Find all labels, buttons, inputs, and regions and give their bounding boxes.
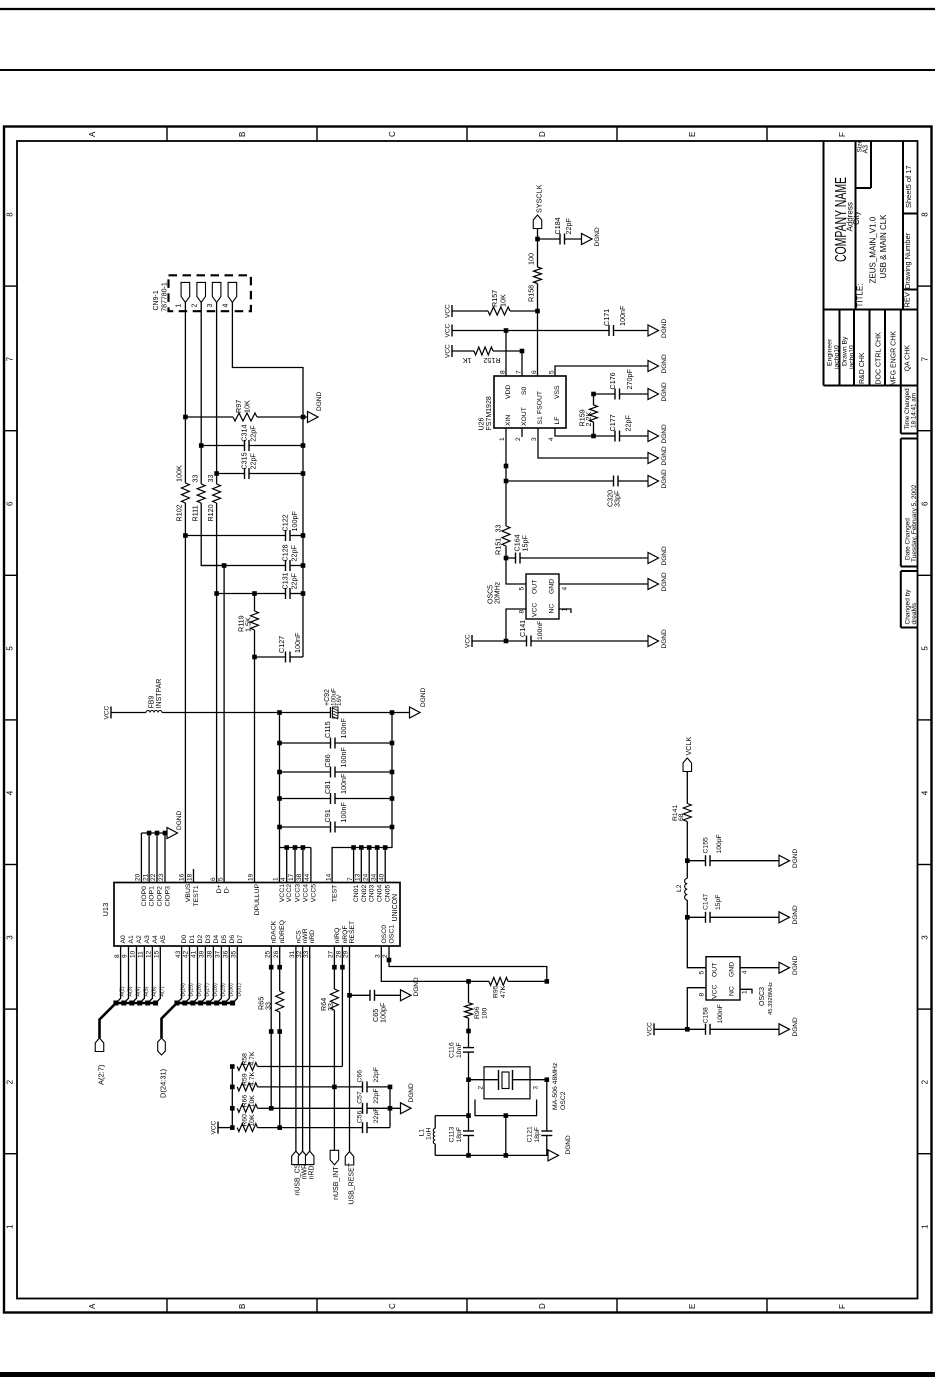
capacitor C57 — [271, 1088, 400, 1114]
crystal OSC2 MA-506 48MHz — [469, 1062, 568, 1155]
net labels A(2)-A(7) — [120, 986, 166, 996]
wire VCC pins bus — [280, 848, 311, 884]
ground DGND (C176) — [648, 382, 668, 401]
wire VCC rail vertical — [280, 713, 311, 848]
svg-text:A3: A3 — [144, 935, 151, 944]
svg-text:D7: D7 — [237, 935, 244, 944]
svg-text:D4: D4 — [213, 935, 220, 944]
top page rule — [0, 8, 935, 10]
svg-text:D(28): D(28) — [212, 983, 218, 996]
svg-text:1: 1 — [273, 877, 280, 881]
junction dots CIOP bus — [147, 831, 168, 836]
power VCC (R157) — [445, 304, 489, 318]
capacitor C155 — [687, 834, 779, 866]
svg-text:22pF: 22pF — [373, 1067, 380, 1083]
junction dots nDACK net — [269, 965, 274, 1111]
resistor R65 — [257, 991, 284, 1012]
svg-text:DGND: DGND — [565, 1135, 572, 1154]
svg-text:A(5): A(5) — [143, 986, 149, 996]
svg-text:REV: REV — [903, 292, 912, 307]
svg-text:CN03: CN03 — [369, 885, 376, 903]
wire U26 LF pin4 to C177 node — [555, 428, 594, 436]
svg-text:C122: C122 — [281, 514, 290, 531]
svg-text:Engineer: Engineer — [827, 338, 834, 366]
svg-text:C127: C127 — [277, 636, 286, 653]
svg-text:C131: C131 — [281, 572, 290, 589]
svg-text:VCC5: VCC5 — [310, 884, 317, 902]
power VCC (C171 row) — [445, 323, 453, 337]
svg-text:15pF: 15pF — [715, 895, 722, 911]
svg-text:OSC2: OSC2 — [560, 1091, 567, 1110]
svg-text:C: C — [388, 1303, 397, 1309]
resistor R152 — [462, 347, 522, 365]
wire U13 TEST1 pin18 stub — [193, 869, 195, 883]
svg-text:5: 5 — [519, 587, 526, 591]
junction dot D- branch — [222, 563, 227, 568]
title block size cell text — [857, 139, 870, 153]
wire CN9 pin4 to ground rail — [232, 302, 303, 657]
svg-text:C91: C91 — [323, 809, 332, 822]
svg-text:5: 5 — [699, 971, 706, 975]
wire pull-up bank ground rail — [389, 1087, 391, 1128]
svg-text:3: 3 — [6, 935, 15, 940]
svg-text:3: 3 — [533, 1086, 540, 1090]
junction dots ground rail — [301, 415, 306, 596]
ground DGND (S1) — [648, 446, 668, 465]
power VCC (C158 row) — [647, 1022, 688, 1036]
junction dots C81 row — [277, 796, 394, 801]
svg-text:8: 8 — [519, 610, 526, 614]
svg-text:nRQF: nRQF — [342, 925, 349, 943]
svg-text:270pF: 270pF — [625, 369, 634, 390]
svg-text:GND: GND — [549, 579, 556, 594]
svg-text:D(30): D(30) — [228, 983, 234, 996]
svg-text:VCC: VCC — [445, 344, 452, 358]
capacitor C121 — [527, 1126, 553, 1155]
svg-text:VCLK: VCLK — [684, 737, 693, 756]
output flag nUSB_INT — [330, 1150, 340, 1200]
svg-text:34: 34 — [370, 873, 377, 881]
junction dots LF node — [591, 392, 596, 439]
svg-text:16: 16 — [179, 873, 186, 881]
svg-text:C86: C86 — [323, 754, 332, 767]
svg-text:DGND: DGND — [661, 446, 668, 465]
bus flag A(2:7) — [95, 1038, 105, 1085]
svg-text:OSC3: OSC3 — [759, 987, 766, 1006]
svg-text:17: 17 — [288, 873, 295, 881]
wire SYSCLK net — [537, 229, 539, 377]
svg-text:D5: D5 — [221, 935, 228, 944]
wire U26 S1 pin3 to ground — [538, 428, 648, 458]
title block borders — [824, 142, 918, 628]
power VCC (C141 row) — [465, 634, 507, 648]
input flag nWR — [298, 1151, 308, 1179]
svg-text:2: 2 — [478, 1086, 485, 1090]
resistor R158 — [527, 253, 542, 302]
svg-text:R96: R96 — [474, 1006, 481, 1019]
svg-text:nUSB_INT: nUSB_INT — [333, 1166, 340, 1200]
wire VCLK net — [686, 772, 688, 879]
wire XIN net (U26 pin1 to OSC5 OUT) — [506, 428, 526, 584]
svg-text:SYSCLK: SYSCLK — [535, 184, 544, 213]
svg-text:1: 1 — [176, 304, 183, 308]
svg-text:CIOP1: CIOP1 — [149, 886, 156, 907]
svg-text:A(7): A(7) — [159, 986, 165, 996]
wire OSC3 NC pin1 stub — [740, 989, 752, 993]
svg-text:C57: C57 — [357, 1091, 364, 1104]
svg-text:Tuesday, February 5, 2002: Tuesday, February 5, 2002 — [911, 484, 918, 562]
svg-text:13: 13 — [355, 873, 362, 881]
svg-text:10K: 10K — [249, 1114, 256, 1127]
wire RESET net — [349, 946, 351, 1152]
wire C92 to ground rail and DGND — [338, 712, 410, 714]
svg-text:nDACK: nDACK — [271, 920, 278, 943]
svg-text:45.3928MHz: 45.3928MHz — [768, 982, 774, 1015]
svg-text:R&D CHK: R&D CHK — [859, 352, 866, 384]
svg-text:22pF: 22pF — [289, 545, 298, 562]
svg-text:D-: D- — [224, 886, 231, 893]
wire GND rail vertical — [332, 713, 392, 884]
svg-text:33: 33 — [326, 1003, 335, 1011]
svg-text:A(3): A(3) — [128, 986, 134, 996]
svg-text:100K: 100K — [175, 465, 184, 482]
svg-text:3: 3 — [375, 954, 382, 958]
ground DGND (C65) — [401, 977, 421, 1001]
svg-text:100nF: 100nF — [339, 718, 348, 739]
svg-text:CIOP3: CIOP3 — [165, 886, 172, 907]
svg-text:24: 24 — [362, 873, 369, 881]
svg-text:CN9-1: CN9-1 — [153, 290, 160, 310]
svg-text:18pF: 18pF — [534, 1127, 541, 1143]
svg-text:22pF: 22pF — [624, 415, 633, 432]
svg-text:DGND: DGND — [316, 392, 323, 411]
svg-text:D(27): D(27) — [204, 983, 210, 996]
svg-text:VCC: VCC — [532, 603, 539, 617]
svg-text:1: 1 — [6, 1224, 15, 1229]
junction dots C86 row — [277, 770, 394, 775]
zone letters top — [88, 131, 847, 137]
svg-text:16V: 16V — [336, 694, 343, 706]
svg-text:R120: R120 — [206, 504, 215, 521]
svg-text:DGND: DGND — [661, 469, 668, 488]
junction dot nRQF net — [340, 965, 345, 970]
svg-text:R60: R60 — [241, 1114, 248, 1127]
svg-text:GND: GND — [729, 962, 736, 977]
ground DGND (VSS) — [648, 354, 668, 373]
svg-text:D: D — [538, 1303, 547, 1309]
svg-text:4: 4 — [548, 437, 555, 441]
capacitor C122 — [185, 511, 303, 541]
junction dot S0 — [520, 349, 525, 354]
svg-text:15pF: 15pF — [521, 535, 530, 552]
resistor R59 — [237, 1071, 334, 1090]
svg-text:D3: D3 — [205, 935, 212, 944]
svg-text:OSC1: OSC1 — [389, 925, 396, 944]
svg-text:39: 39 — [199, 950, 206, 958]
title block title text — [856, 214, 889, 308]
svg-text:VSS: VSS — [554, 385, 561, 399]
svg-text:TEST1: TEST1 — [193, 885, 200, 906]
svg-text:68: 68 — [678, 813, 685, 821]
svg-text:36: 36 — [223, 950, 230, 958]
capacitor C127 — [255, 632, 304, 662]
svg-text:2: 2 — [515, 437, 522, 441]
svg-text:DGND: DGND — [661, 319, 668, 338]
svg-text:2: 2 — [921, 1079, 930, 1084]
capacitor C128 — [201, 544, 303, 571]
svg-text:33: 33 — [303, 950, 310, 958]
svg-text:RESET: RESET — [349, 921, 356, 944]
svg-text:nWR: nWR — [302, 928, 309, 943]
svg-text:CN01: CN01 — [353, 885, 360, 903]
junction dot OSC1 net — [387, 958, 392, 963]
svg-text:R151: R151 — [494, 538, 503, 555]
zone numbers right — [921, 212, 930, 1229]
wire VCC row to C171 — [452, 330, 609, 332]
svg-text:3: 3 — [921, 935, 930, 940]
resistor R102 — [175, 465, 190, 521]
svg-text:nRD: nRD — [309, 1165, 316, 1179]
capacitor C177 — [594, 414, 649, 441]
svg-text:FSOUT: FSOUT — [537, 391, 544, 414]
svg-text:20: 20 — [135, 873, 142, 881]
junction dots A bus — [113, 1001, 158, 1006]
junction dot C155 tap — [685, 858, 690, 863]
svg-text:22pF: 22pF — [373, 1108, 380, 1124]
svg-text:C116: C116 — [449, 1042, 456, 1058]
svg-text:7: 7 — [921, 356, 930, 361]
svg-text:VCC3: VCC3 — [295, 884, 302, 902]
resistor R119 — [237, 594, 259, 658]
svg-text:11: 11 — [138, 951, 145, 958]
svg-text:100nF: 100nF — [339, 747, 348, 768]
svg-text:28: 28 — [336, 950, 343, 958]
junction dots R95 row — [466, 979, 549, 984]
ic U13 UNICON — [101, 873, 400, 958]
ground DGND (CIOP bank) — [167, 811, 183, 839]
svg-text:4: 4 — [223, 304, 230, 308]
svg-text:33pF: 33pF — [613, 490, 622, 507]
title block engineer cell text — [827, 338, 841, 370]
power VCC (FB9) — [104, 705, 112, 719]
capacitor C92 100uF electrolytic — [324, 688, 343, 719]
svg-text:14: 14 — [325, 873, 332, 881]
svg-text:Drawing Number: Drawing Number — [903, 232, 912, 289]
svg-text:6: 6 — [6, 501, 15, 506]
svg-text:jacho10: jacho10 — [849, 345, 856, 370]
svg-text:DGND: DGND — [792, 905, 799, 924]
svg-text:DGND: DGND — [792, 956, 799, 975]
svg-text:E: E — [688, 132, 697, 137]
svg-text:nDREQ: nDREQ — [279, 920, 286, 943]
svg-text:A4: A4 — [152, 935, 159, 944]
svg-text:C141: C141 — [518, 620, 527, 637]
svg-text:2.2K: 2.2K — [584, 412, 593, 427]
svg-text:S1: S1 — [537, 416, 544, 425]
junction dot C147 tap — [685, 915, 690, 920]
wire OSC5 GND pin4 to ground — [559, 583, 648, 585]
net labels D(24)-D(31) — [181, 983, 243, 996]
junction dots XIN net — [504, 464, 509, 561]
junction dots D bus — [174, 1001, 235, 1006]
svg-text:41: 41 — [191, 950, 198, 958]
svg-text:NC: NC — [549, 604, 556, 614]
svg-text:D(29): D(29) — [220, 983, 226, 996]
junction dot RESET at C65 — [347, 993, 352, 998]
ground DGND (R97) — [303, 392, 323, 423]
svg-text:8: 8 — [921, 212, 930, 217]
svg-text:L2: L2 — [676, 884, 683, 892]
wire A bus lines — [100, 946, 161, 1038]
ground DGND (decoupling bank) — [410, 688, 428, 718]
svg-text:VCC: VCC — [445, 304, 452, 318]
svg-text:4: 4 — [742, 970, 749, 974]
svg-text:OUT: OUT — [712, 963, 719, 977]
svg-text:F: F — [838, 132, 847, 137]
svg-text:FB9: FB9 — [149, 696, 156, 709]
wire CIOP pins to ground bus — [141, 833, 167, 883]
svg-text:4: 4 — [6, 790, 15, 795]
resistor R120 — [206, 475, 221, 522]
svg-text:VCC: VCC — [211, 1120, 218, 1134]
capacitor C171 — [602, 305, 648, 336]
svg-text:18:14:41 am: 18:14:41 am — [911, 393, 918, 428]
svg-text:C177: C177 — [608, 414, 617, 431]
svg-text:VCC: VCC — [465, 634, 472, 648]
svg-text:City: City — [852, 211, 861, 225]
bus flag D(24:31) — [158, 1038, 168, 1098]
svg-text:CN04: CN04 — [377, 885, 384, 903]
svg-text:R95: R95 — [493, 985, 500, 998]
svg-text:D(24:31): D(24:31) — [159, 1068, 168, 1098]
ground DGND (OSC5) — [648, 572, 668, 591]
svg-text:35: 35 — [231, 950, 238, 958]
svg-text:C155: C155 — [703, 837, 710, 853]
svg-text:nRD: nRD — [309, 930, 316, 944]
wire nIRQ net — [333, 946, 335, 1150]
ground DGND (C158) — [779, 1017, 799, 1036]
svg-text:100: 100 — [482, 1007, 489, 1019]
svg-text:1: 1 — [499, 437, 506, 441]
wire nRQF net — [341, 946, 343, 1067]
svg-text:2: 2 — [191, 304, 198, 308]
svg-text:jacho10: jacho10 — [834, 345, 841, 370]
capacitor C65 — [350, 990, 401, 1023]
svg-text:26: 26 — [273, 950, 280, 958]
svg-text:DGND: DGND — [594, 227, 601, 246]
svg-text:DGND: DGND — [661, 354, 668, 373]
wire U26 S0 pin7 stub — [521, 351, 523, 376]
junction dots C91 row — [277, 825, 394, 830]
svg-text:B: B — [238, 132, 247, 137]
wire L2 to OSC3 — [687, 900, 706, 968]
svg-text:10: 10 — [130, 950, 137, 958]
resistor R64 — [319, 989, 338, 1011]
junction dots pull-up left rail — [230, 1064, 235, 1130]
ferrite bead FB9 INSTPAR — [111, 679, 163, 713]
svg-text:U26: U26 — [479, 418, 486, 431]
junction dots VCC/GND rails at C92 row — [277, 710, 394, 715]
junction dot crystal right pin — [545, 1077, 550, 1082]
svg-text:10nF: 10nF — [456, 1043, 463, 1059]
svg-text:5: 5 — [217, 877, 224, 881]
junction dot D- at C314 — [199, 443, 204, 448]
junction dots VCC bus — [284, 845, 305, 850]
svg-text:18pF: 18pF — [456, 1127, 463, 1143]
svg-text:33: 33 — [206, 475, 215, 483]
capacitor C56 — [280, 1108, 390, 1134]
resistor R111 — [191, 475, 206, 522]
svg-text:7: 7 — [347, 877, 354, 881]
ground DGND (C184) — [582, 227, 602, 246]
svg-text:TEST: TEST — [332, 885, 339, 902]
input flag nUSB_CS — [292, 1151, 302, 1196]
capacitor C147 — [687, 894, 779, 923]
wire OSC3 VCC pin8 to rail — [687, 988, 706, 1030]
resistor R58 — [237, 1051, 342, 1070]
svg-text:3: 3 — [207, 304, 214, 308]
svg-text:VCC: VCC — [712, 985, 719, 999]
svg-text:R111: R111 — [191, 505, 200, 521]
svg-text:100nF: 100nF — [293, 632, 302, 653]
svg-text:F: F — [838, 1304, 847, 1309]
oscillator OSC5 20MHz — [488, 574, 569, 619]
svg-text:VCC: VCC — [445, 323, 452, 337]
svg-text:U13: U13 — [101, 903, 110, 917]
svg-text:DGND: DGND — [661, 629, 668, 648]
svg-text:22pF: 22pF — [289, 573, 298, 590]
wire nRD net — [309, 946, 311, 1151]
resistor R96 — [465, 981, 489, 1019]
svg-text:100pF: 100pF — [290, 511, 299, 532]
svg-text:nWR: nWR — [301, 1164, 308, 1180]
second page rule — [0, 69, 935, 71]
svg-text:6: 6 — [210, 877, 217, 881]
svg-text:DGND: DGND — [661, 546, 668, 565]
svg-text:18: 18 — [187, 873, 194, 881]
wire U26 VDD pin8 stub — [505, 331, 507, 377]
junction dots D+ net — [214, 471, 219, 596]
svg-text:XIN: XIN — [505, 415, 512, 426]
wire pull-up bank left rail — [231, 1067, 233, 1128]
svg-text:E: E — [688, 1304, 697, 1309]
svg-text:A0: A0 — [120, 935, 127, 944]
junction dots C116 line — [466, 1029, 471, 1082]
capacitor C86 — [280, 747, 393, 778]
svg-text:D0: D0 — [181, 935, 188, 944]
svg-text:20MHz: 20MHz — [495, 581, 502, 604]
output flag SYSCLK — [533, 184, 543, 228]
svg-text:D(25): D(25) — [189, 983, 195, 996]
capacitor C91 — [280, 802, 393, 833]
svg-text:CIOP0: CIOP0 — [141, 886, 148, 907]
junction dot L1 tap — [466, 1113, 471, 1118]
svg-text:D1: D1 — [189, 935, 196, 944]
svg-text:1K: 1K — [462, 356, 471, 365]
svg-text:C176: C176 — [608, 372, 617, 389]
svg-text:15: 15 — [154, 950, 161, 958]
svg-text:10K: 10K — [499, 294, 508, 307]
title block date changed cell text — [905, 484, 919, 562]
resistor R157 — [488, 290, 538, 315]
svg-text:100nF: 100nF — [339, 773, 348, 794]
svg-text:29: 29 — [343, 950, 350, 958]
capacitor C184 — [538, 217, 582, 244]
svg-text:8: 8 — [114, 954, 121, 958]
svg-text:A(4): A(4) — [136, 986, 142, 996]
svg-text:12: 12 — [146, 950, 153, 958]
capacitor C115 — [280, 718, 393, 749]
